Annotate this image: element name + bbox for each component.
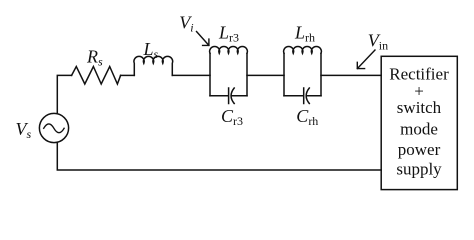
- wire left rail of tank 2: [283, 53, 285, 95]
- inductor Lrh: [284, 47, 322, 54]
- svg-text:Vs: Vs: [16, 119, 32, 141]
- capacitor Crh: [284, 88, 321, 104]
- svg-text:power: power: [398, 140, 441, 159]
- svg-text:supply: supply: [396, 160, 442, 179]
- wire left rail of tank 1: [209, 53, 211, 95]
- wire right rail of tank 2: [320, 53, 322, 95]
- svg-text:Vin: Vin: [368, 30, 388, 52]
- wire right rail of tank 1: [246, 53, 248, 95]
- wire: [57, 75, 71, 113]
- svg-text:Lr3: Lr3: [218, 23, 239, 45]
- capacitor Cr3: [210, 88, 247, 104]
- rectifier block: [381, 56, 457, 189]
- wire: [172, 74, 210, 76]
- node Vin arrow: [357, 50, 375, 69]
- wire: [247, 74, 284, 76]
- voltage source Vs: [39, 113, 68, 142]
- wire bottom return: [57, 143, 381, 170]
- svg-text:mode: mode: [400, 120, 438, 139]
- svg-text:Lrh: Lrh: [294, 23, 315, 45]
- wire: [321, 74, 381, 76]
- svg-text:Rs: Rs: [86, 46, 103, 68]
- rectifier block text: [389, 65, 449, 179]
- inductor Ls: [134, 56, 173, 75]
- svg-text:switch: switch: [397, 98, 442, 117]
- svg-text:Crh: Crh: [296, 106, 318, 128]
- resistor Rs: [72, 67, 121, 85]
- svg-text:Ls: Ls: [143, 39, 159, 61]
- svg-text:Cr3: Cr3: [221, 106, 243, 128]
- svg-text:Vi: Vi: [179, 13, 193, 35]
- wire: [121, 74, 135, 76]
- inductor Lr3: [210, 47, 248, 54]
- node Vi arrow: [197, 32, 209, 46]
